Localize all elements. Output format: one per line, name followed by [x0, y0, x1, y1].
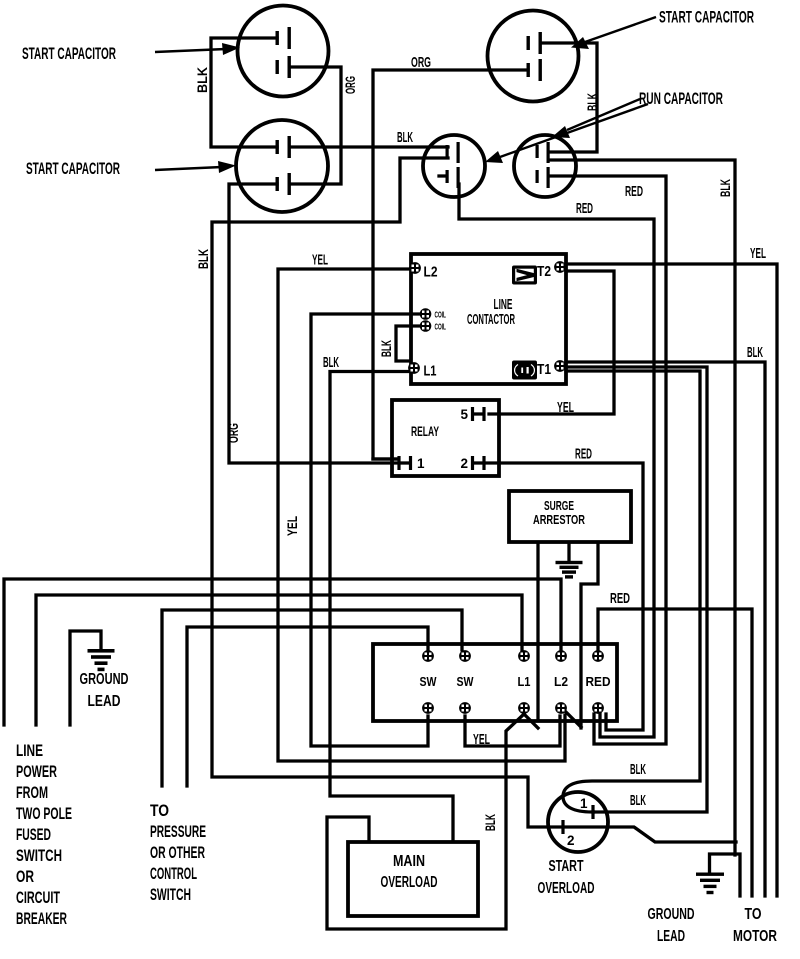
label ORG cap1: [342, 76, 358, 94]
label BLK runcap left: [397, 129, 413, 146]
svg-text:BLK: BLK: [630, 792, 646, 809]
svg-text:TO: TO: [745, 906, 762, 923]
svg-text:BLK: BLK: [717, 179, 733, 197]
start overload circle: [548, 792, 608, 852]
relay pin 1 contact: [373, 456, 412, 470]
wire contactor coil2 hook to L1 terminal: [396, 326, 420, 361]
relay pin 2 contact: [471, 456, 486, 470]
label BLK cap3: [584, 93, 600, 111]
label BLK wire 212: [195, 249, 211, 269]
ground symbol left ground lead: [88, 649, 115, 671]
wire ORG cap1-lower to cap2-lower: [290, 67, 341, 184]
svg-text:SWITCH: SWITCH: [16, 846, 62, 865]
terminal L2 top: [555, 650, 567, 662]
label BLK coil hook: [378, 340, 394, 357]
label YEL T2 motor: [750, 245, 766, 262]
label START CAPACITOR 3: [659, 8, 754, 27]
ground symbol right ground lead: [696, 873, 724, 895]
svg-text:CIRCUIT: CIRCUIT: [16, 888, 60, 907]
arrow to start capacitor C1: [155, 43, 240, 55]
svg-text:GROUND: GROUND: [648, 906, 695, 923]
wire pressure switch lead A to terminal SW2 top: [162, 610, 462, 786]
label BLK T1 wire: [747, 344, 763, 361]
svg-text:RED: RED: [610, 590, 630, 607]
arrow to start capacitor C3: [571, 17, 656, 49]
wire YEL contactor T2 to motor: [566, 264, 777, 896]
svg-text:ORG: ORG: [225, 423, 241, 443]
relay K1 box: [392, 400, 499, 476]
terminal L2 bottom: [555, 702, 567, 714]
svg-text:LEAD: LEAD: [657, 928, 685, 945]
svg-text:1: 1: [580, 796, 588, 811]
svg-text:RED: RED: [576, 200, 593, 217]
label YEL relay5 wire: [557, 399, 574, 416]
label GROUND LEAD right: [648, 906, 695, 945]
svg-text:RUN CAPACITOR: RUN CAPACITOR: [639, 89, 723, 108]
wire ORG cap2-lower to relay pin1: [229, 184, 397, 463]
svg-text:FROM: FROM: [16, 783, 48, 802]
label L1 strip: [518, 674, 531, 689]
svg-text:YEL: YEL: [284, 516, 300, 536]
wire BLK contactor T1 to start overload pin1: [566, 367, 707, 812]
T1 icon: [512, 361, 537, 380]
label START OVERLOAD: [538, 858, 595, 897]
T2 icon: [512, 266, 537, 285]
svg-text:L1: L1: [424, 363, 437, 380]
terminal L2 of contactor: [409, 262, 421, 274]
label GROUND LEAD left: [80, 671, 129, 710]
label COIL upper: [435, 310, 447, 320]
svg-text:BLK: BLK: [323, 354, 339, 371]
terminal L1 top: [518, 650, 530, 662]
terminal T2 of contactor: [554, 261, 566, 273]
run capacitor C5: [514, 135, 576, 197]
label START CAPACITOR 2: [26, 159, 120, 178]
start capacitor C1: [238, 6, 329, 97]
wire RED terminal RED top: [598, 609, 752, 896]
svg-text:LINE: LINE: [16, 741, 43, 760]
label TO MOTOR: [733, 906, 777, 945]
wire BLK cap1-upper to cap2-upper: [211, 38, 277, 147]
label COIL lower: [435, 322, 447, 332]
svg-text:START CAPACITOR: START CAPACITOR: [22, 44, 116, 63]
wire ORG cap3-lower to relay pin1: [373, 70, 528, 459]
label start overload pin 2: [567, 833, 575, 848]
wire line power lead B to terminal L1 top: [36, 595, 522, 725]
label RUN CAPACITOR: [639, 89, 723, 108]
svg-text:RELAY: RELAY: [411, 424, 439, 439]
svg-text:OR OTHER: OR OTHER: [150, 843, 205, 862]
terminal T1 of contactor: [554, 360, 566, 372]
arrow to run capacitor C4: [485, 104, 648, 163]
svg-text:TO: TO: [150, 801, 169, 820]
label LINE CONTACTOR: [467, 297, 515, 328]
main overload box: [348, 842, 478, 916]
svg-text:BLK: BLK: [195, 249, 211, 269]
svg-text:ORG: ORG: [342, 76, 358, 94]
wire terminal L1 diagonal to surge arrestor lead: [524, 714, 538, 728]
svg-text:RED: RED: [575, 446, 592, 463]
wire surge arrestor ground stem: [567, 543, 570, 561]
surge arrestor box: [509, 491, 631, 542]
terminal strip box: [373, 644, 617, 721]
svg-text:FUSED: FUSED: [16, 825, 51, 844]
label RED relay2 wire: [575, 446, 592, 463]
label T1 contactor: [537, 361, 551, 378]
terminal RED top: [592, 650, 604, 662]
svg-text:BLK: BLK: [194, 67, 210, 93]
wire BLK terminal L1 bottom to main overload loop: [327, 714, 524, 929]
start overload pin 1 tick: [591, 805, 594, 819]
wire terminal L2 diagonal to surge arrestor lead: [565, 711, 581, 727]
svg-text:START: START: [549, 858, 584, 875]
svg-text:CONTACTOR: CONTACTOR: [467, 312, 515, 328]
svg-text:SWITCH: SWITCH: [150, 885, 191, 904]
start overload pin 2 tick: [561, 820, 564, 834]
svg-text:COIL: COIL: [435, 310, 447, 320]
svg-text:SW: SW: [457, 674, 475, 689]
wire ground lead bottom right: [710, 854, 741, 896]
svg-text:START CAPACITOR: START CAPACITOR: [26, 159, 120, 178]
svg-text:ARRESTOR: ARRESTOR: [533, 513, 585, 527]
terminal SW1 bottom: [422, 702, 434, 714]
label L1 contactor: [424, 363, 437, 380]
label BLK cap1: [194, 67, 210, 93]
label SW2: [457, 674, 475, 689]
label BLK start overload feed: [482, 814, 498, 831]
label ORG wire 229: [225, 423, 241, 443]
svg-text:SURGE: SURGE: [544, 499, 574, 513]
terminal SW1 top: [422, 650, 434, 662]
terminal L1 of contactor: [408, 362, 420, 374]
svg-text:BLK: BLK: [378, 340, 394, 357]
label start overload pin 1: [580, 796, 588, 811]
label RELAY: [411, 424, 439, 439]
wire ground lead left: [70, 631, 101, 725]
label BLK overload hook wire: [630, 761, 646, 778]
svg-text:LEAD: LEAD: [88, 693, 121, 710]
arrow to run capacitor C5: [552, 99, 640, 138]
svg-text:2: 2: [460, 456, 468, 471]
wire YEL terminal SW2 bottom to terminal L2 bottom: [465, 716, 560, 746]
svg-text:POWER: POWER: [16, 762, 57, 781]
svg-text:CONTROL: CONTROL: [150, 864, 197, 883]
start capacitor C3: [488, 11, 579, 102]
label TO PRESSURE OR OTHER CONTROL SWITCH: [150, 801, 206, 904]
svg-text:L2: L2: [424, 264, 438, 281]
start capacitor C2: [236, 120, 328, 212]
svg-text:OR: OR: [16, 867, 34, 886]
label YEL L2 wire: [312, 252, 328, 269]
svg-text:COIL: COIL: [435, 322, 447, 332]
svg-text:1: 1: [417, 456, 425, 471]
svg-text:OVERLOAD: OVERLOAD: [381, 874, 438, 891]
svg-text:START CAPACITOR: START CAPACITOR: [659, 8, 754, 27]
label YEL strip jumper: [473, 731, 490, 748]
label RED terminal wire: [610, 590, 630, 607]
wire RED run capacitor left to terminal RED: [459, 184, 654, 737]
label relay pin 5: [460, 407, 468, 422]
svg-text:YEL: YEL: [312, 252, 328, 269]
relay pin 5 contact: [471, 407, 486, 421]
svg-text:BLK: BLK: [482, 814, 498, 831]
wire pressure switch lead B to terminal SW1 top: [187, 627, 428, 786]
label RED strip: [586, 674, 611, 689]
wire YEL contactor T2 to relay pin5: [489, 271, 614, 414]
wire BLK cap2-upper to run capacitor left: [290, 145, 448, 148]
svg-text:MAIN: MAIN: [393, 853, 425, 870]
svg-text:RED: RED: [586, 674, 611, 689]
terminal RED bottom: [592, 702, 604, 714]
coil terminal lower: [420, 320, 432, 332]
svg-text:5: 5: [460, 407, 468, 422]
svg-text:YEL: YEL: [557, 399, 574, 416]
wire surge arrestor left lead: [536, 543, 539, 720]
wire BLK contactor T1 to start overload pin1 hook: [563, 371, 700, 812]
svg-text:PRESSURE: PRESSURE: [150, 822, 206, 841]
ground symbol surge arrestor: [556, 561, 583, 579]
svg-text:MOTOR: MOTOR: [733, 928, 777, 945]
svg-text:2: 2: [567, 833, 575, 848]
label T2 contactor: [537, 263, 551, 280]
wire BLK contactor T1 to motor: [566, 362, 765, 896]
wire BLK contactor L1 to main overload: [330, 372, 453, 842]
label LINE POWER FROM TWO POLE FUSED SWITCH OR CIRCUIT BREAKER: [16, 741, 72, 928]
run capacitor C4: [423, 135, 485, 197]
wire RED relay pin2 to terminal RED: [486, 463, 643, 730]
svg-text:TWO POLE: TWO POLE: [16, 804, 72, 823]
label BLK L1 wire: [323, 354, 339, 371]
label START CAPACITOR 1: [22, 44, 116, 63]
svg-text:L2: L2: [554, 674, 568, 689]
svg-text:ORG: ORG: [411, 54, 431, 71]
svg-text:T1: T1: [537, 361, 551, 378]
svg-text:YEL: YEL: [473, 731, 490, 748]
svg-text:BREAKER: BREAKER: [16, 909, 67, 928]
svg-text:GROUND: GROUND: [80, 671, 129, 688]
label L2 contactor: [424, 264, 438, 281]
label BLK motor wire: [717, 179, 733, 197]
svg-text:BLK: BLK: [747, 344, 763, 361]
wire BLK cap3-upper to run capacitor right: [542, 43, 597, 152]
wire surge arrestor right lead: [581, 543, 598, 728]
line contactor U1 box: [411, 254, 566, 384]
terminal L1 bottom: [518, 702, 530, 714]
label ORG cap3: [411, 54, 431, 71]
svg-text:RED: RED: [625, 183, 643, 200]
label YEL wire 278: [284, 516, 300, 536]
terminal SW2 bottom: [459, 702, 471, 714]
svg-text:BLK: BLK: [584, 93, 600, 111]
label relay pin 1: [417, 456, 425, 471]
wire contactor coil to terminal SW1 bottom: [311, 314, 428, 746]
svg-text:BLK: BLK: [630, 761, 646, 778]
label RED runcap left: [576, 200, 593, 217]
svg-text:SW: SW: [420, 674, 438, 689]
svg-text:YEL: YEL: [750, 245, 766, 262]
label SW1: [420, 674, 438, 689]
wire RED run capacitor right to terminal RED: [550, 176, 666, 744]
label SURGE ARRESTOR: [533, 499, 585, 527]
arrow to start capacitor C2: [155, 161, 236, 173]
wire BLK run capacitor left to start overload pin2 and motor: [212, 158, 736, 842]
label RED runcap right: [625, 183, 643, 200]
svg-text:LINE: LINE: [494, 297, 513, 313]
wire line power lead A to terminal L2 top: [4, 579, 561, 725]
terminal SW2 top: [459, 650, 471, 662]
label BLK overload pin1 wire: [630, 792, 646, 809]
svg-text:OVERLOAD: OVERLOAD: [538, 880, 595, 897]
svg-text:T2: T2: [537, 263, 551, 280]
svg-text:BLK: BLK: [397, 129, 413, 146]
coil terminal upper: [420, 308, 432, 320]
svg-text:L1: L1: [518, 674, 531, 689]
wire YEL contactor L2 to terminal L2 bottom: [278, 269, 565, 761]
label relay pin 2: [460, 456, 468, 471]
wire BLK run capacitor right to motor: [550, 160, 735, 855]
label MAIN OVERLOAD: [381, 853, 438, 891]
label L2 strip: [554, 674, 568, 689]
